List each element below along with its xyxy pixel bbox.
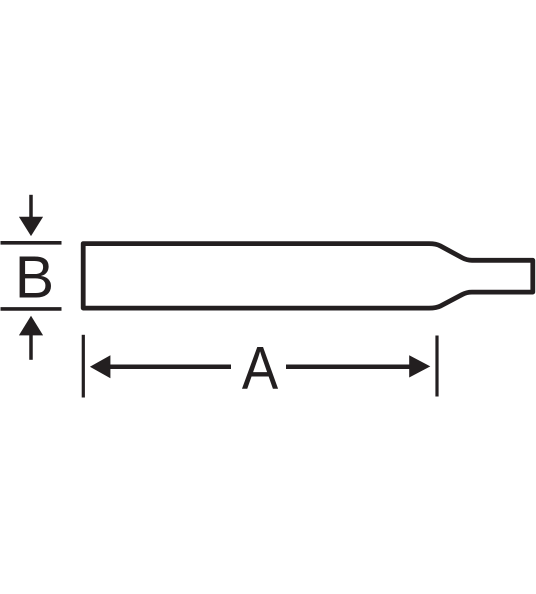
dimension A right extension line bbox=[435, 336, 438, 397]
dimension B bottom extension line bbox=[1, 307, 62, 311]
file body outline bbox=[83, 244, 533, 309]
svg-text:A: A bbox=[242, 335, 279, 402]
dimension B up arrow shaft bbox=[29, 333, 33, 360]
dimension A right arrow line bbox=[286, 365, 412, 370]
svg-text:B: B bbox=[15, 245, 54, 311]
dimension B up arrowhead bbox=[19, 316, 43, 336]
dimension A left extension line bbox=[82, 335, 85, 398]
dimension A right arrowhead bbox=[409, 355, 430, 377]
dimension B down arrow shaft bbox=[29, 195, 33, 220]
dimension A left arrowhead bbox=[90, 355, 111, 378]
dimension B top extension line bbox=[1, 241, 62, 245]
dimension B down arrowhead bbox=[19, 217, 43, 236]
dimension A left arrow line bbox=[107, 365, 231, 370]
